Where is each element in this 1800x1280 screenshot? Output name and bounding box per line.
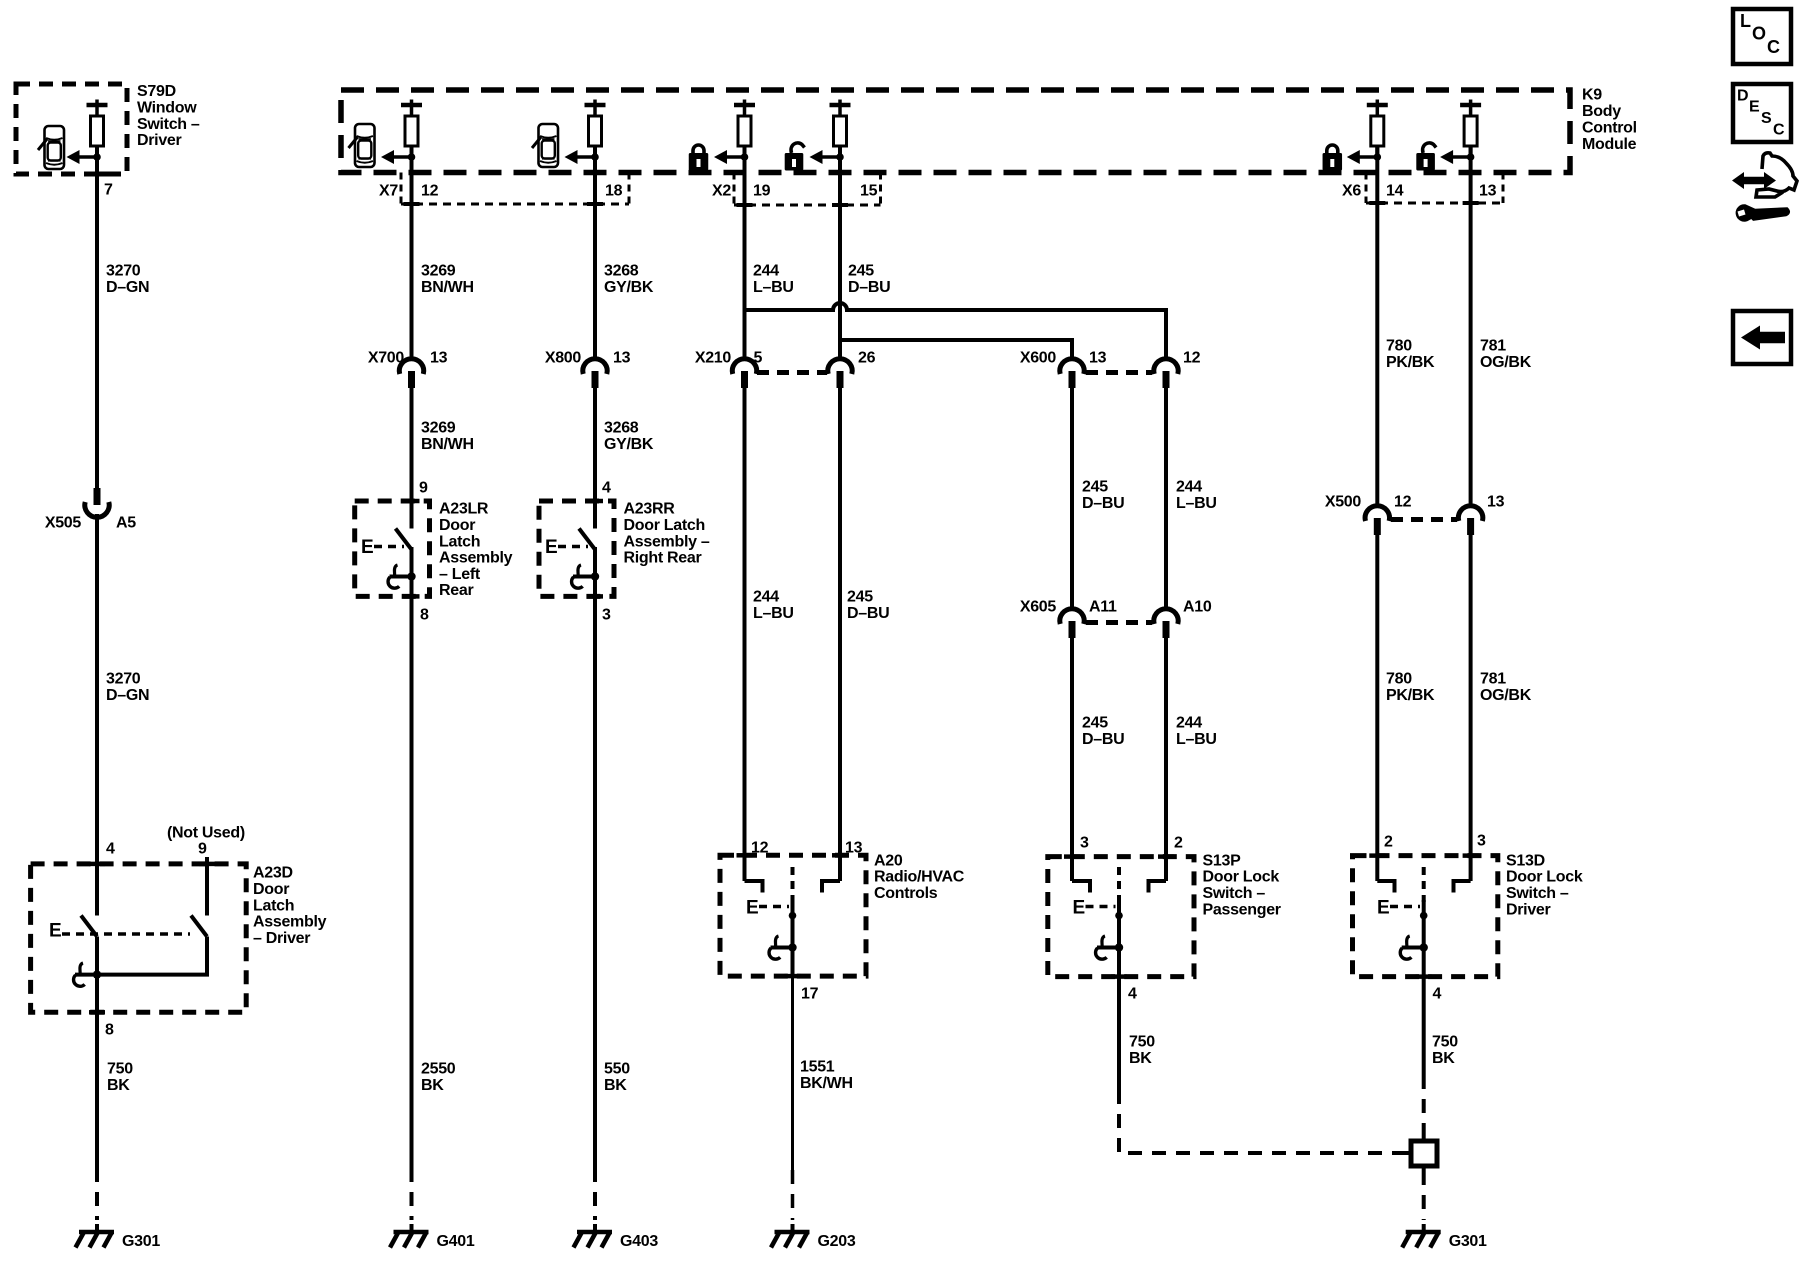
svg-text:Door: Door (253, 881, 289, 898)
svg-text:(Not Used): (Not Used) (167, 825, 245, 842)
svg-text:3: 3 (1080, 835, 1089, 852)
svg-text:S79D: S79D (137, 83, 176, 100)
svg-text:9: 9 (198, 841, 207, 858)
svg-text:S13P: S13P (1203, 852, 1242, 869)
svg-text:2: 2 (1384, 834, 1393, 851)
svg-text:BK: BK (604, 1077, 627, 1094)
connector X505 pin A5 (85, 502, 109, 517)
svg-text:3268: 3268 (604, 420, 639, 437)
ground G401 (410, 1224, 414, 1232)
svg-text:8: 8 (420, 607, 429, 624)
connector X500 pin 13 (1458, 506, 1482, 521)
svg-text:Switch –: Switch – (137, 116, 200, 133)
svg-text:Switch –: Switch – (1506, 885, 1569, 902)
driver element X7-18 (593, 100, 597, 106)
connector X500 pin 12 (1365, 506, 1389, 521)
svg-text:Rear: Rear (439, 582, 473, 599)
svg-text:D: D (1737, 88, 1749, 105)
connector X210 pin 26 (828, 359, 852, 374)
ground G203 (791, 1224, 795, 1232)
svg-text:G203: G203 (818, 1233, 856, 1250)
wire branch to X600-13 (840, 340, 1072, 360)
ground lead G301 left dashed (95, 1168, 99, 1220)
wire 245 D-BU X600 to X605 (1070, 373, 1074, 610)
splice lead dashed S13P to splice (1119, 1090, 1405, 1153)
svg-text:X7: X7 (379, 183, 398, 200)
wire 245 D-BU to S13P pin 3 (1070, 623, 1074, 881)
connector X605 dashed link (1086, 620, 1152, 625)
svg-text:D–GN: D–GN (106, 279, 149, 296)
component box S79D Window Switch - Driver (16, 84, 127, 174)
svg-text:BK: BK (107, 1077, 130, 1094)
connector label box X7 pins 12 18 (400, 173, 403, 205)
wire 3268 GY/BK upper (593, 146, 597, 360)
svg-text:2: 2 (1174, 835, 1183, 852)
svg-text:Door Lock: Door Lock (1203, 869, 1280, 886)
ground lead G301 right dashed (1422, 1171, 1426, 1220)
wire 750 BK S13D (1422, 977, 1426, 1075)
svg-text:244: 244 (1176, 479, 1202, 496)
latch pawl A23RR (593, 547, 597, 596)
svg-text:3: 3 (1477, 833, 1486, 850)
svg-text:245: 245 (1082, 715, 1108, 732)
connector X500 dashed link (1391, 517, 1457, 522)
svg-text:G301: G301 (122, 1233, 160, 1250)
ground G301 left (95, 1224, 99, 1232)
pin 9 stub wire A23D (205, 857, 209, 916)
component box A23D Door Latch Assembly - Driver (31, 864, 247, 1012)
svg-text:X505: X505 (45, 515, 82, 532)
svg-text:L–BU: L–BU (753, 279, 794, 296)
svg-text:12: 12 (751, 840, 769, 857)
svg-text:L–BU: L–BU (1176, 495, 1217, 512)
car icon X7-12 (355, 124, 375, 167)
wire 750 BK left (95, 1012, 99, 1168)
svg-text:X700: X700 (368, 350, 405, 367)
svg-text:244: 244 (753, 263, 779, 280)
connector X800 pin 13 (583, 359, 607, 374)
svg-text:K9: K9 (1582, 87, 1602, 104)
svg-text:A20: A20 (874, 852, 903, 869)
svg-text:GY/BK: GY/BK (604, 279, 654, 296)
latch pawl A23D (95, 937, 99, 1013)
svg-text:C: C (1773, 122, 1785, 139)
svg-text:245: 245 (848, 263, 874, 280)
svg-text:E: E (1749, 99, 1760, 116)
wire 245 D-BU to A20 (838, 373, 842, 881)
wire 550 BK (593, 576, 597, 1168)
svg-text:750: 750 (1432, 1034, 1458, 1051)
switch contact left S13D (1377, 881, 1394, 893)
svg-text:245: 245 (1082, 479, 1108, 496)
switch contact left S13P (1072, 881, 1090, 893)
svg-text:Door: Door (439, 517, 475, 534)
svg-text:750: 750 (107, 1061, 133, 1078)
svg-text:550: 550 (604, 1061, 630, 1078)
svg-text:Body: Body (1582, 103, 1621, 120)
svg-text:E: E (746, 897, 758, 918)
wire 244 L-BU to S13P pin 2 (1164, 623, 1168, 881)
svg-text:781: 781 (1480, 671, 1506, 688)
svg-text:13: 13 (1089, 350, 1107, 367)
svg-text:GY/BK: GY/BK (604, 436, 654, 453)
connector X605 pin A10 (1154, 609, 1178, 624)
svg-text:E: E (49, 920, 61, 941)
svg-text:15: 15 (860, 183, 878, 200)
component box A20 Radio/HVAC Controls (720, 855, 866, 976)
connector X600 pin 13 (1060, 359, 1084, 374)
sidebar LOC box icon (1733, 9, 1791, 64)
wire 781 OG/BK lower (1469, 520, 1473, 881)
svg-text:E: E (1377, 897, 1389, 918)
splice lead dashed S13D (1422, 1075, 1426, 1136)
latch pawl A23LR (410, 547, 414, 596)
ground lead G403 dashed (593, 1168, 597, 1220)
ground G301 right (1422, 1224, 1426, 1232)
svg-text:S13D: S13D (1506, 852, 1545, 869)
svg-text:A5: A5 (116, 515, 136, 532)
ground lead G401 dashed (410, 1168, 414, 1220)
svg-text:12: 12 (421, 183, 439, 200)
switch blade main A23D (81, 916, 97, 937)
svg-text:– Driver: – Driver (253, 930, 310, 947)
svg-text:BK: BK (1432, 1050, 1455, 1067)
switch common S13P (1117, 867, 1121, 902)
svg-text:Window: Window (137, 100, 197, 117)
wire branch to X600-12 with hop (745, 303, 1167, 360)
ground G403 (593, 1224, 597, 1232)
svg-text:4: 4 (1433, 986, 1442, 1003)
car icon S79D (45, 126, 65, 169)
svg-text:14: 14 (1386, 183, 1404, 200)
svg-text:3269: 3269 (421, 263, 456, 280)
switch common S13D (1422, 867, 1426, 902)
svg-text:D–BU: D–BU (1082, 731, 1124, 748)
svg-text:D–BU: D–BU (1082, 495, 1124, 512)
latch pawl S13P (1097, 946, 1119, 950)
svg-text:BK/WH: BK/WH (800, 1075, 853, 1092)
svg-text:Radio/HVAC: Radio/HVAC (874, 869, 965, 886)
svg-text:8: 8 (105, 1022, 114, 1039)
svg-text:X500: X500 (1325, 494, 1362, 511)
svg-text:A23RR: A23RR (624, 501, 676, 518)
svg-text:Latch: Latch (253, 897, 294, 914)
svg-text:C: C (1767, 37, 1780, 57)
connector label box X2 pins 19 15 (733, 173, 736, 206)
svg-text:A23D: A23D (253, 865, 293, 882)
svg-text:Module: Module (1582, 136, 1637, 153)
svg-text:3270: 3270 (106, 263, 141, 280)
second throw wire A23D (97, 937, 207, 975)
svg-text:Driver: Driver (137, 132, 182, 149)
svg-text:Assembly: Assembly (439, 550, 513, 567)
svg-text:4: 4 (602, 480, 611, 497)
svg-text:Assembly: Assembly (253, 914, 327, 931)
connector X605 pin A11 (1060, 609, 1084, 624)
svg-text:X800: X800 (545, 350, 582, 367)
svg-text:G301: G301 (1449, 1233, 1487, 1250)
svg-text:3270: 3270 (106, 671, 141, 688)
ground lead G203 dashed (791, 1170, 795, 1220)
svg-text:X605: X605 (1020, 599, 1057, 616)
driver element X2-15 (838, 100, 842, 106)
wire pin 7 from S79D (95, 146, 99, 489)
driver element X2-19 (743, 100, 747, 106)
svg-text:BN/WH: BN/WH (421, 279, 474, 296)
svg-text:X210: X210 (695, 350, 732, 367)
switch contact left A20 (745, 881, 763, 893)
svg-text:12: 12 (1394, 494, 1412, 511)
svg-text:PK/BK: PK/BK (1386, 687, 1435, 704)
connector X210 dashed link (757, 370, 827, 375)
driver element X7-12 (410, 100, 414, 106)
switch common A20 (791, 867, 795, 900)
svg-text:X2: X2 (712, 183, 731, 200)
wire 3269 BN/WH upper (410, 146, 414, 360)
svg-text:244: 244 (753, 589, 779, 606)
svg-text:19: 19 (753, 183, 771, 200)
wire 1551 BK/WH (791, 976, 794, 1170)
switch blade in A23RR (579, 529, 595, 550)
switch contact right S13P (1149, 881, 1167, 893)
connector label box X6 pins 14 13 (1365, 173, 1368, 204)
svg-text:1551: 1551 (800, 1059, 835, 1076)
svg-text:Door Latch: Door Latch (624, 517, 705, 534)
svg-text:L: L (1740, 11, 1751, 31)
svg-text:O: O (1752, 24, 1766, 44)
svg-text:Controls: Controls (874, 885, 938, 902)
wire 245 D-BU upper (838, 146, 842, 360)
svg-text:Switch –: Switch – (1203, 885, 1266, 902)
svg-text:781: 781 (1480, 338, 1506, 355)
car icon X7-18 (539, 124, 559, 167)
svg-text:13: 13 (430, 350, 448, 367)
connector X600 dashed link (1086, 370, 1152, 375)
svg-text:D–BU: D–BU (847, 605, 889, 622)
svg-text:Assembly –: Assembly – (624, 533, 710, 550)
latch pawl A20 (771, 946, 793, 950)
sidebar back arrow box icon (1733, 311, 1791, 364)
svg-text:17: 17 (801, 986, 819, 1003)
svg-text:Latch: Latch (439, 533, 480, 550)
switch contact right S13D (1454, 881, 1471, 893)
svg-text:2550: 2550 (421, 1061, 456, 1078)
lock icon closed X2-19 (693, 145, 704, 153)
component box K9 Body Control Module (341, 90, 1570, 173)
svg-text:26: 26 (858, 350, 876, 367)
svg-text:4: 4 (106, 841, 115, 858)
component box A23RR Door Latch Assembly - Right Rear (539, 501, 614, 596)
driver element in S79D (95, 100, 99, 106)
svg-text:BK: BK (421, 1077, 444, 1094)
svg-text:G401: G401 (437, 1233, 475, 1250)
svg-text:A23LR: A23LR (439, 501, 489, 518)
switch blade in A23LR (396, 529, 412, 550)
svg-text:5: 5 (754, 350, 763, 367)
svg-text:780: 780 (1386, 338, 1412, 355)
svg-text:Door Lock: Door Lock (1506, 869, 1583, 886)
svg-text:D–GN: D–GN (106, 687, 149, 704)
svg-text:OG/BK: OG/BK (1480, 354, 1532, 371)
svg-text:BN/WH: BN/WH (421, 436, 474, 453)
svg-text:OG/BK: OG/BK (1480, 687, 1532, 704)
svg-text:13: 13 (613, 350, 631, 367)
svg-text:12: 12 (1183, 350, 1201, 367)
svg-text:3269: 3269 (421, 420, 456, 437)
svg-text:E: E (361, 537, 373, 558)
wire 780 PK/BK upper (1375, 146, 1379, 507)
svg-text:A11: A11 (1089, 599, 1117, 616)
connector X210 pin 5 (732, 359, 756, 374)
svg-text:780: 780 (1386, 671, 1412, 688)
wire 781 OG/BK upper (1469, 146, 1473, 507)
splice junction block (1422, 1136, 1426, 1141)
connector X600 pin 12 (1154, 359, 1178, 374)
wire 244 L-BU upper (743, 146, 747, 360)
svg-text:3: 3 (602, 607, 611, 624)
sidebar DESC box icon (1733, 84, 1791, 142)
svg-text:13: 13 (1487, 494, 1505, 511)
switch contact right A20 (822, 881, 840, 893)
svg-text:E: E (545, 537, 557, 558)
connector X700 pin 13 (399, 359, 423, 374)
svg-text:D–BU: D–BU (848, 279, 890, 296)
svg-text:3268: 3268 (604, 263, 639, 280)
wire 244 L-BU to A20 (743, 373, 747, 881)
svg-text:PK/BK: PK/BK (1386, 354, 1435, 371)
svg-text:9: 9 (419, 480, 428, 497)
svg-text:A10: A10 (1183, 599, 1212, 616)
latch pawl S13D (1402, 946, 1424, 950)
svg-text:4: 4 (1128, 986, 1137, 1003)
svg-text:L–BU: L–BU (753, 605, 794, 622)
svg-text:S: S (1761, 110, 1772, 127)
svg-text:245: 245 (847, 589, 873, 606)
lock icon open X2-15 (791, 143, 804, 153)
component box A23LR Door Latch Assembly - Left Rear (355, 501, 430, 596)
lock icon closed X6-14 (1327, 145, 1338, 153)
svg-text:– Left: – Left (439, 566, 481, 583)
wire 750 BK S13P (1117, 977, 1121, 1090)
lock icon open X6-13 (1423, 143, 1436, 153)
svg-text:Control: Control (1582, 120, 1637, 137)
switch blade second A23D (191, 916, 207, 937)
sidebar connector repair icon (1732, 153, 1797, 221)
driver element X6-13 (1469, 100, 1473, 106)
svg-text:X6: X6 (1342, 183, 1361, 200)
wire 780 PK/BK lower (1375, 520, 1379, 881)
wire 3270 D-GN lower (95, 514, 99, 916)
svg-text:Right Rear: Right Rear (624, 550, 702, 567)
svg-text:13: 13 (1479, 183, 1497, 200)
svg-text:18: 18 (605, 183, 623, 200)
wire 2550 BK (410, 576, 414, 1168)
wire 244 L-BU X600 to X605 (1164, 373, 1168, 610)
svg-text:Passenger: Passenger (1203, 901, 1281, 918)
svg-text:E: E (1073, 897, 1085, 918)
svg-text:750: 750 (1129, 1034, 1155, 1051)
wire 3269 BN/WH lower (410, 373, 414, 529)
component box S13P Door Lock Switch - Passenger (1048, 857, 1194, 977)
svg-text:Driver: Driver (1506, 901, 1551, 918)
driver element X6-14 (1376, 100, 1380, 106)
component box S13D Door Lock Switch - Driver (1353, 856, 1498, 977)
svg-text:244: 244 (1176, 715, 1202, 732)
svg-text:G403: G403 (620, 1233, 658, 1250)
svg-text:7: 7 (104, 182, 113, 199)
wire 3268 GY/BK lower (593, 373, 597, 529)
svg-text:L–BU: L–BU (1176, 731, 1217, 748)
svg-text:BK: BK (1129, 1050, 1152, 1067)
svg-text:X600: X600 (1020, 350, 1057, 367)
